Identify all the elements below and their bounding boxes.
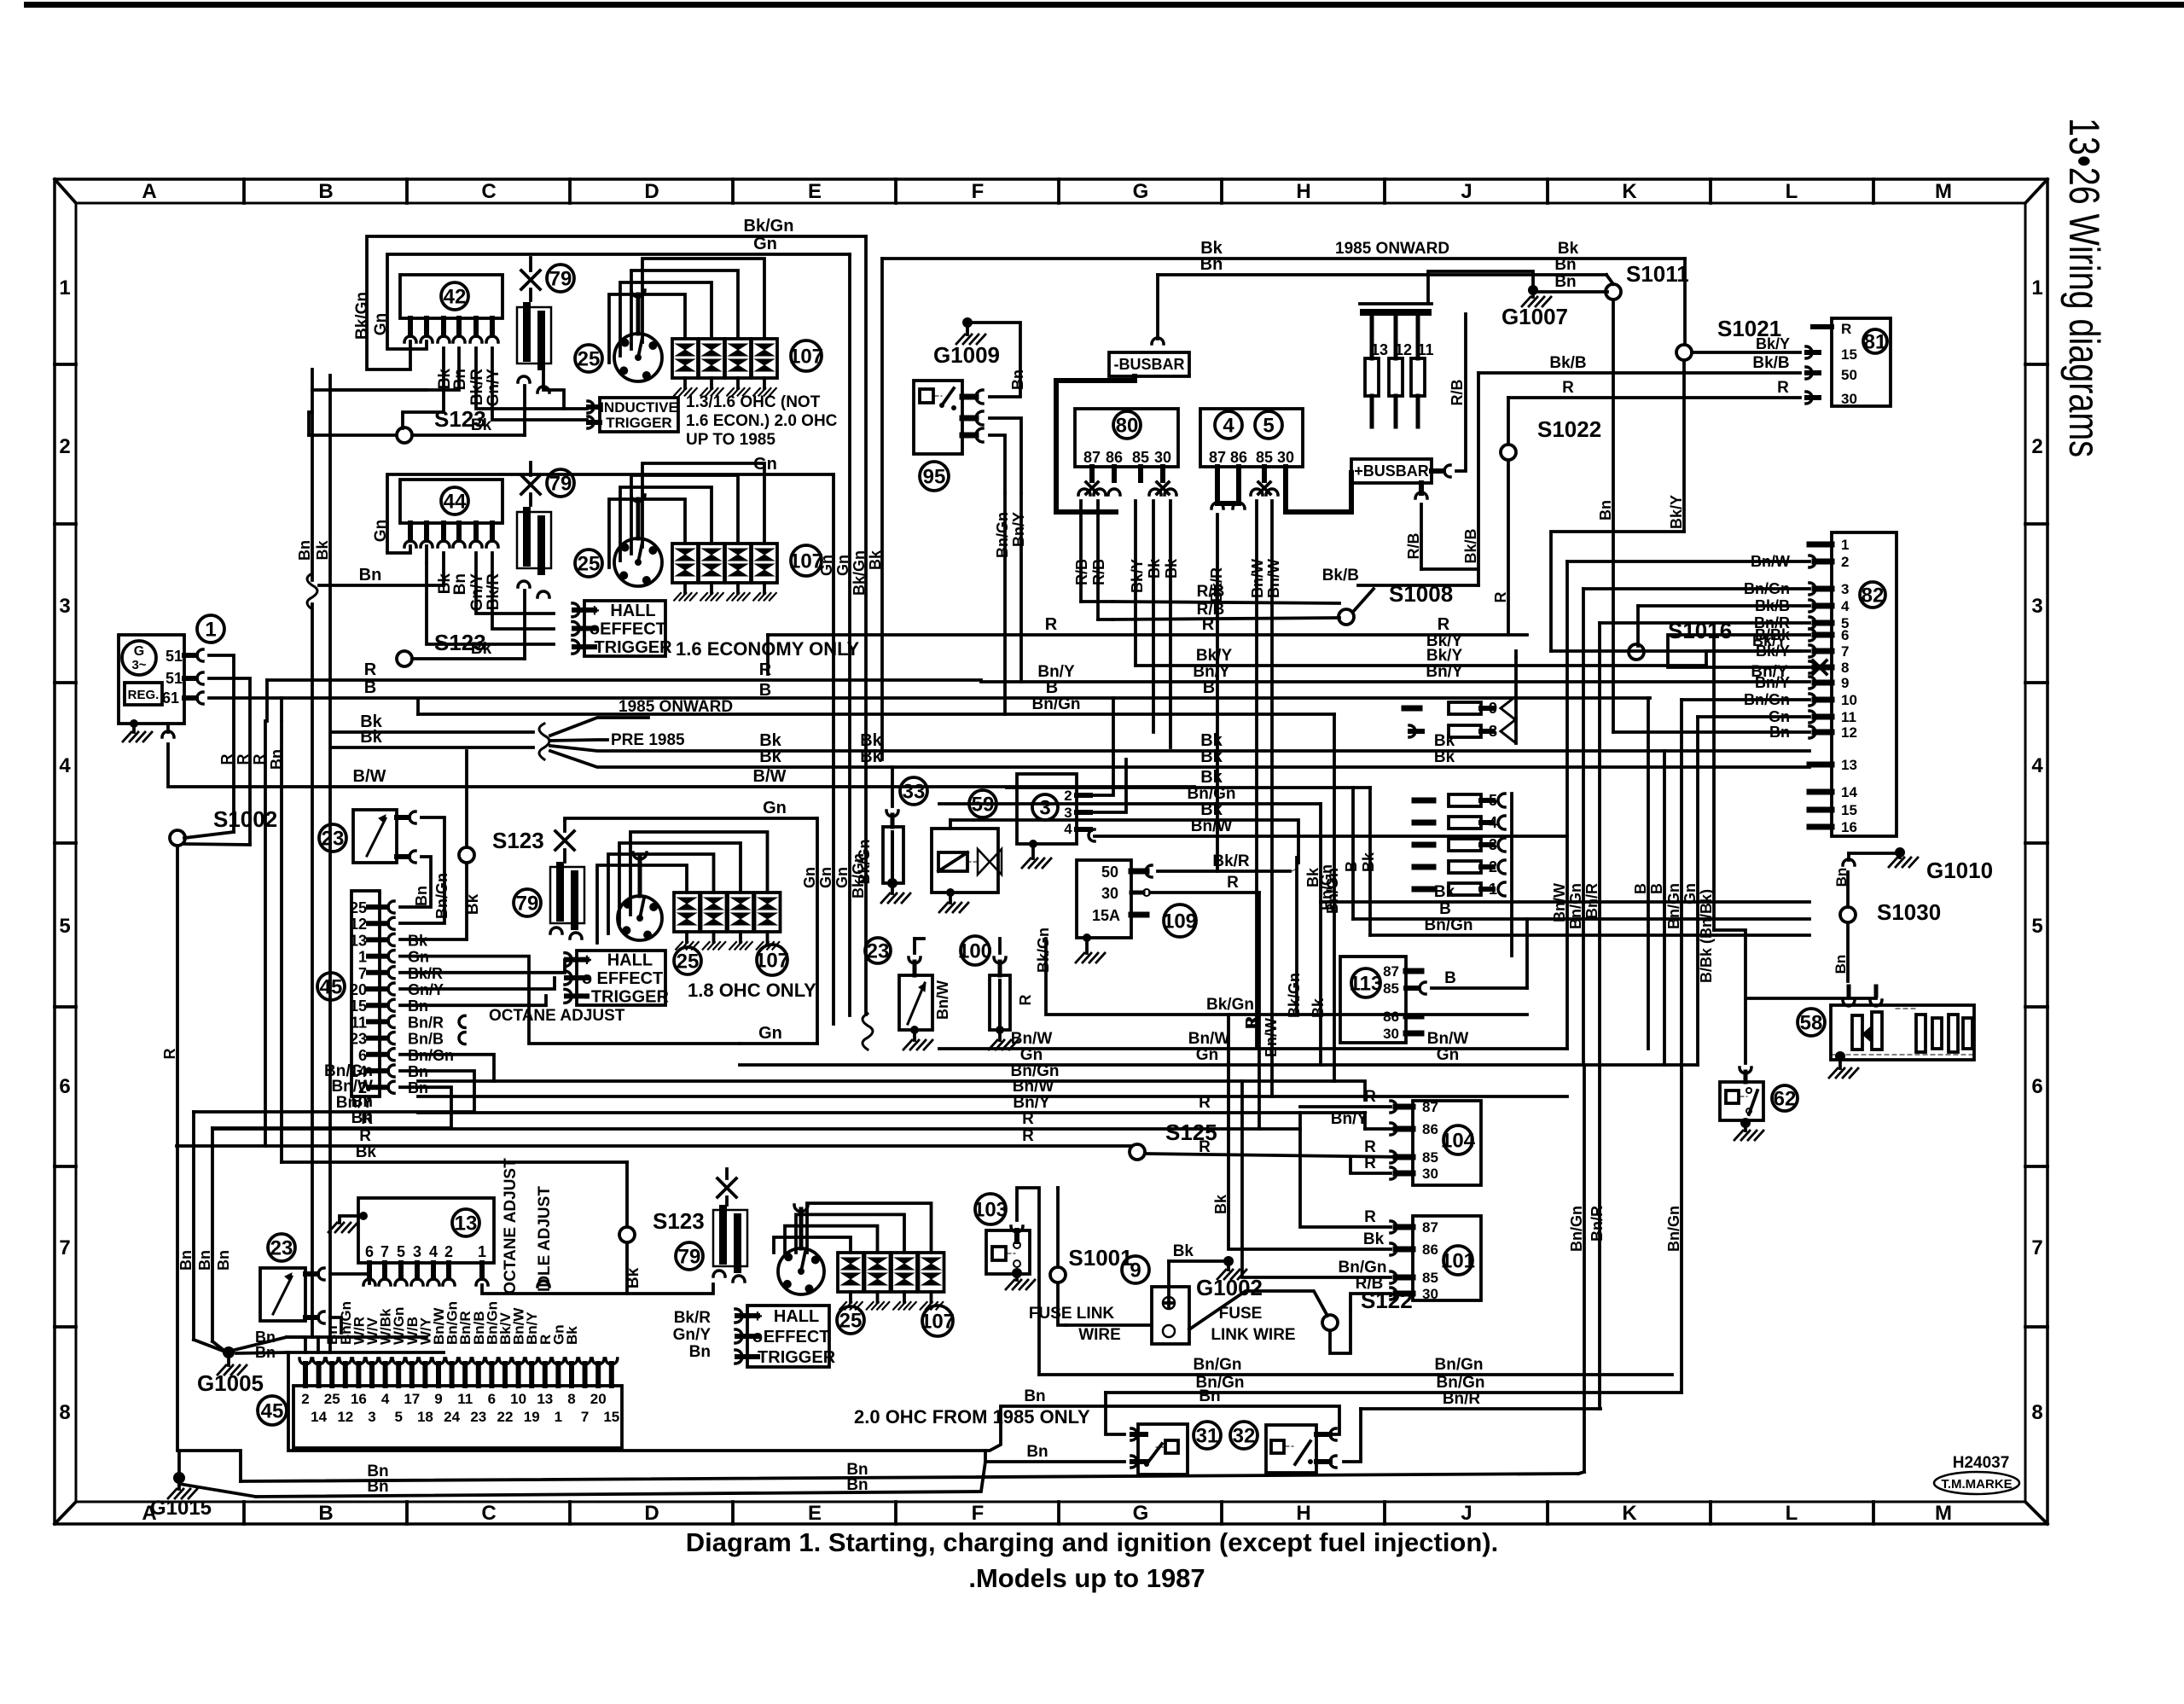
splice S123 (3) <box>459 847 474 863</box>
svg-text:25: 25 <box>350 899 367 916</box>
svg-text:1.8 OHC ONLY: 1.8 OHC ONLY <box>688 980 816 1001</box>
svg-text:Bn: Bn <box>367 1478 388 1496</box>
svg-text:R/B: R/B <box>1197 583 1225 601</box>
svg-text:R/B: R/B <box>1449 380 1466 406</box>
svg-text:Bn/W: Bn/W <box>1188 1030 1230 1048</box>
svg-text:Gn: Gn <box>817 867 834 888</box>
wire Bk S123 to coil <box>412 433 525 437</box>
circle ref 31 <box>1194 1422 1221 1449</box>
splice S123 (4) <box>619 1227 635 1242</box>
svg-text:86: 86 <box>1230 449 1247 466</box>
wire Bn into module44 <box>319 584 444 587</box>
splice S1008 <box>1339 609 1354 625</box>
svg-text:2: 2 <box>1841 554 1849 570</box>
hall trigger box (1.8 OHC) <box>577 951 665 1005</box>
wires pins 9-12 <box>1682 698 1809 701</box>
vertical Bn/W (J) <box>1565 561 1569 1049</box>
svg-text:11: 11 <box>457 1391 473 1407</box>
circle ref 79 <box>547 265 574 292</box>
svg-text:86: 86 <box>1383 1009 1399 1025</box>
svg-text:12: 12 <box>1841 724 1857 741</box>
pin8 splice X <box>1813 660 1827 674</box>
svg-text:1.3/1.6 OHC (NOT: 1.3/1.6 OHC (NOT <box>686 393 821 411</box>
svg-text:Bn/B: Bn/B <box>408 1031 444 1048</box>
svg-text:R: R <box>364 660 377 679</box>
ground G1007 <box>1528 285 1538 295</box>
svg-text:Gn: Gn <box>1682 883 1699 904</box>
svg-text:FUSE: FUSE <box>1219 1305 1263 1323</box>
octane adjust fork (45) <box>459 1015 465 1027</box>
wire Bn/W (row6b) <box>418 1095 1272 1098</box>
svg-text:6: 6 <box>1841 627 1849 643</box>
hall trigger box (2.0 OHC) <box>747 1306 829 1367</box>
svg-text:86: 86 <box>1106 449 1123 466</box>
wire pin14 Bn <box>400 1071 474 1112</box>
fuse link wire S1001 <box>1066 1323 1152 1327</box>
svg-text:Bk: Bk <box>759 747 781 766</box>
svg-text:R: R <box>235 754 252 765</box>
wire loop pin8 <box>1668 635 1814 667</box>
wire S123 left <box>309 433 397 437</box>
box82 ground G1010 <box>1847 853 1850 860</box>
svg-text:Bk/Y: Bk/Y <box>1196 647 1233 665</box>
svg-text:12: 12 <box>337 1409 353 1425</box>
svg-text:S1011: S1011 <box>1626 261 1689 287</box>
svg-text:Bn: Bn <box>451 573 469 595</box>
fuse block feed from G1007 riser <box>1428 271 1533 304</box>
svg-text:Bn/Y: Bn/Y <box>1013 1094 1050 1112</box>
svg-text:3: 3 <box>1064 805 1072 821</box>
wire to 33 from Bk bus <box>891 767 894 806</box>
svg-text:C: C <box>481 1502 496 1525</box>
E column risers Gn Gn Gn Bk/Gn <box>816 818 819 1044</box>
splice S1001 <box>1050 1267 1066 1282</box>
fuse block 13/12/11 <box>1360 309 1432 316</box>
wire Bk/Y via S1016 <box>1551 649 1809 653</box>
svg-text:R: R <box>1199 1138 1211 1156</box>
wire Bn/Gn bottom2 <box>1106 1391 1682 1394</box>
column ticks bottom <box>242 1502 246 1524</box>
svg-text:Bk: Bk <box>471 416 492 434</box>
relay4/5 30 to +BUSBAR (thick) <box>1286 473 1351 512</box>
wires R/B to S1008 <box>1112 602 1339 603</box>
svg-text:Bk: Bk <box>860 747 882 766</box>
wire Bn/Gn to 101-85 <box>1242 1081 1391 1277</box>
fuse 5 <box>1414 798 1433 804</box>
svg-text:R: R <box>161 1049 178 1060</box>
svg-text:30: 30 <box>1422 1286 1438 1302</box>
wire Bn bottom3 <box>288 1352 1339 1451</box>
svg-text:13: 13 <box>455 1213 478 1236</box>
svg-text:Bn/Gn: Bn/Gn <box>1437 1374 1485 1392</box>
circle ref 9 <box>1122 1256 1149 1283</box>
svg-text:J: J <box>1461 180 1472 203</box>
svg-text:80: 80 <box>1116 415 1139 438</box>
wire R (row7) through S125 <box>177 1144 1130 1148</box>
HT harness (1.8 OHC) <box>597 865 687 943</box>
svg-text:107: 107 <box>755 950 789 973</box>
svg-text:85: 85 <box>1383 980 1399 997</box>
circle ref 79 (4) <box>676 1242 703 1270</box>
wire Bk row5b <box>973 818 1297 822</box>
svg-text:Bn/Gn: Bn/Gn <box>1665 883 1682 929</box>
svg-text:51: 51 <box>166 670 183 687</box>
box3 ground <box>1029 840 1037 848</box>
svg-text:15: 15 <box>1841 802 1857 818</box>
wire Bn G1007 to S1011 <box>1539 290 1607 294</box>
svg-text:13: 13 <box>350 932 367 949</box>
svg-text:H: H <box>1296 1502 1310 1525</box>
svg-text:Bk: Bk <box>1200 768 1223 787</box>
svg-text:25: 25 <box>677 951 700 974</box>
wire R from 109-30 <box>1150 891 1259 894</box>
distributor (2.0 OHC) <box>778 1248 824 1294</box>
svg-text:Bn/Gn: Bn/Gn <box>1435 1356 1484 1374</box>
G-column risers Bk Bn/Gn B Bk <box>1319 804 1322 902</box>
svg-text:R: R <box>1202 615 1215 634</box>
wire S123-4 down <box>627 1242 713 1294</box>
svg-text:6: 6 <box>2031 1075 2042 1098</box>
svg-text:Gn: Gn <box>1437 1046 1459 1064</box>
wire pin1 Gn down to Gn bus <box>400 957 740 1044</box>
vertical R from S1002 down <box>176 846 179 1451</box>
circle ref 79 <box>547 469 574 497</box>
svg-text:Bn: Bn <box>177 1250 195 1271</box>
svg-text:HALL: HALL <box>774 1307 819 1326</box>
svg-text:81: 81 <box>1864 331 1887 354</box>
svg-text:Gn: Gn <box>372 313 390 335</box>
svg-text:Bn/R: Bn/R <box>408 1014 444 1031</box>
svg-text:FUSE LINK: FUSE LINK <box>1029 1305 1115 1323</box>
svg-text:Bk: Bk <box>1304 867 1321 887</box>
svg-text:3: 3 <box>2031 595 2042 618</box>
HT lead harness <box>609 294 685 363</box>
svg-text:2.0 OHC FROM 1985 ONLY: 2.0 OHC FROM 1985 ONLY <box>854 1406 1090 1428</box>
svg-text:50: 50 <box>1101 864 1118 881</box>
coil3 top splice X <box>555 831 574 850</box>
long wire Bk (row4b) <box>331 746 533 749</box>
svg-text:18: 18 <box>417 1409 433 1425</box>
svg-text:3: 3 <box>1039 797 1050 820</box>
svg-text:Bn/W: Bn/W <box>1011 1030 1053 1048</box>
wire Bn top to S1011 <box>1158 273 1606 276</box>
svg-text:Bn: Bn <box>351 1093 373 1111</box>
svg-text:K: K <box>1622 180 1637 203</box>
splice S122 <box>1322 1315 1338 1330</box>
svg-text:50: 50 <box>1841 367 1857 383</box>
wire Bk/R from 109-50 <box>1158 869 1290 873</box>
svg-text:12: 12 <box>350 916 367 933</box>
svg-text:14: 14 <box>1841 784 1857 800</box>
svg-text:87: 87 <box>1383 963 1399 980</box>
wire Bk/Gn (top left) <box>367 236 866 369</box>
splice S125 <box>1130 1144 1145 1160</box>
svg-text:5: 5 <box>1263 415 1274 438</box>
svg-text:Bk/Y: Bk/Y <box>1756 643 1790 660</box>
circle ref 79 (3) <box>514 889 541 916</box>
squiggle on Gn wire at E6 <box>863 1014 873 1050</box>
svg-text:30: 30 <box>1841 391 1857 407</box>
svg-text:79: 79 <box>516 893 539 916</box>
svg-text:20: 20 <box>590 1391 607 1407</box>
circle ref 25 <box>575 550 602 577</box>
wire Bn/Gn (row6) <box>418 1079 1334 1083</box>
fuse 9 <box>1404 706 1420 712</box>
svg-text:E: E <box>808 1502 822 1525</box>
relay 62 <box>1720 1082 1763 1120</box>
vertical B (K) 2 <box>1663 751 1666 1065</box>
svg-text:7: 7 <box>581 1409 589 1425</box>
svg-text:Gn: Gn <box>758 1024 782 1043</box>
+BUSBAR output <box>1432 468 1443 474</box>
ground G1009 <box>962 317 973 328</box>
svg-text:Bk/Gn: Bk/Gn <box>744 217 794 236</box>
long wire Bk/Y <box>1136 664 1706 667</box>
svg-text:13: 13 <box>1841 757 1857 773</box>
svg-text:Bk/Gn: Bk/Gn <box>850 853 867 899</box>
svg-text:Bk: Bk <box>1434 883 1455 901</box>
svg-text:Bn/W: Bn/W <box>1551 883 1568 922</box>
relay80 pins down <box>1089 467 1095 480</box>
svg-text:9: 9 <box>1841 675 1849 691</box>
svg-text:Gn: Gn <box>372 520 390 542</box>
fuse 8 <box>1409 725 1415 737</box>
svg-text:H: H <box>1296 180 1310 203</box>
svg-text:15: 15 <box>1841 346 1857 363</box>
svg-text:87: 87 <box>1083 449 1101 466</box>
regulator box <box>125 683 162 705</box>
svg-text:23: 23 <box>270 1237 293 1260</box>
long wire Bk 1985 onward <box>882 257 1685 260</box>
relay95 contact symbol <box>920 389 933 403</box>
wires relay95 pins down <box>990 418 1021 493</box>
svg-text:1.6 ECON.) 2.0 OHC: 1.6 ECON.) 2.0 OHC <box>686 412 838 430</box>
spark plugs (2.0 OHC) <box>838 1253 863 1292</box>
svg-text:30: 30 <box>1383 1026 1399 1042</box>
svg-text:Bn: Bn <box>296 540 313 561</box>
svg-text:R: R <box>1562 379 1574 397</box>
svg-text:4: 4 <box>1223 415 1234 438</box>
vertical Bk/B down <box>1477 373 1480 585</box>
svg-text:101: 101 <box>1441 1250 1475 1273</box>
circle ref 107 (3) <box>757 945 787 975</box>
long wire Bn/Gn (row4) <box>418 712 1334 716</box>
relay 59 (ignition?) <box>969 790 996 817</box>
svg-text:16: 16 <box>1841 819 1857 835</box>
svg-text:Gn: Gn <box>1196 1046 1218 1064</box>
svg-text:23: 23 <box>867 940 890 963</box>
svg-text:Bn/Y: Bn/Y <box>1426 663 1463 681</box>
svg-text:17: 17 <box>404 1391 420 1407</box>
wire R alternator pin51a <box>209 655 234 832</box>
ground G1015 <box>173 1472 185 1484</box>
svg-text:4: 4 <box>2031 754 2043 777</box>
svg-text:Bn/Gn: Bn/Gn <box>1425 916 1473 934</box>
svg-text:OCTANE ADJUST: OCTANE ADJUST <box>489 1007 625 1025</box>
svg-text:Bn: Bn <box>1024 1387 1045 1405</box>
svg-text:87: 87 <box>1422 1099 1438 1115</box>
spark plugs (1.8 OHC) <box>674 893 700 932</box>
svg-text:11: 11 <box>351 1014 367 1031</box>
wire Gn (cluster2 top) <box>387 474 834 553</box>
starter 81 pin stubs <box>1813 324 1832 329</box>
circle ref 95 <box>920 462 949 491</box>
alternator bottom hook <box>166 724 170 732</box>
vertical Bk/Y from top (S1021) <box>1683 259 1687 345</box>
svg-text:62: 62 <box>1774 1088 1797 1111</box>
svg-text:INDUCTIVE: INDUCTIVE <box>600 399 678 416</box>
wire Bk row5 <box>1007 786 1370 789</box>
svg-text:Gn: Gn <box>753 455 777 474</box>
svg-text:Bn/W: Bn/W <box>1265 559 1282 598</box>
wire Bk/B to S1008 leg <box>1358 584 1478 587</box>
svg-text:30: 30 <box>1154 449 1171 466</box>
row ticks right <box>2025 363 2047 366</box>
svg-text:104: 104 <box>1441 1130 1476 1153</box>
svg-text:Bn/Gn: Bn/Gn <box>1568 1206 1585 1252</box>
svg-text:R: R <box>1227 874 1239 892</box>
svg-text:Gn: Gn <box>1020 1046 1043 1064</box>
coolant sensor 23 (1) <box>319 824 346 852</box>
riser R from fuse100 <box>998 939 1002 953</box>
svg-text:Bk/R: Bk/R <box>674 1309 712 1327</box>
svg-text:Bn/W: Bn/W <box>1263 1018 1280 1057</box>
ignition module 44 box <box>400 480 502 523</box>
ignition module 13 <box>358 1198 494 1263</box>
verticals at bottom right <box>1583 1065 1586 1472</box>
coil 79 (2.0 OHC) <box>713 1210 747 1266</box>
splice S1022 <box>1501 445 1516 460</box>
wire Bk/B to starter 50 <box>1478 371 1800 375</box>
svg-text:Bn: Bn <box>351 1109 373 1127</box>
vertical Gn (K) <box>1696 717 1699 1065</box>
wire Gn (row6) <box>740 1063 1698 1067</box>
svg-text:30: 30 <box>1422 1166 1438 1182</box>
circle ref 107 (4) <box>922 1306 953 1336</box>
wire B K5 <box>1353 917 1809 921</box>
wire Bn/Gn K5 <box>1370 933 1809 937</box>
svg-text:G1015: G1015 <box>150 1497 212 1520</box>
svg-text:TRIGGER: TRIGGER <box>758 1348 836 1367</box>
svg-text:EFFECT: EFFECT <box>600 620 666 639</box>
svg-text:Bk: Bk <box>564 1326 580 1345</box>
svg-text:S1008: S1008 <box>1389 581 1453 607</box>
wire Gn (top left) <box>387 254 850 349</box>
wire B from 113-85 <box>1432 986 1527 990</box>
svg-text:109: 109 <box>1163 910 1197 933</box>
svg-text:Gn: Gn <box>801 867 818 888</box>
svg-text:Bn: Bn <box>1597 500 1614 521</box>
long wire R (row3) <box>207 677 211 680</box>
svg-text:Bk: Bk <box>1434 732 1455 750</box>
svg-text:G1007: G1007 <box>1501 304 1568 329</box>
svg-text:Bk/B: Bk/B <box>1752 354 1789 372</box>
vertical Bn/Gn (K) <box>1680 700 1683 1065</box>
svg-text:S123: S123 <box>492 828 544 853</box>
svg-text:5: 5 <box>397 1243 405 1260</box>
coil 79 (1.8 OHC) <box>550 867 584 923</box>
fusible link 33 <box>900 777 927 805</box>
wire 23b top to Bn/W <box>913 939 916 953</box>
svg-text:95: 95 <box>923 466 946 489</box>
svg-text:G: G <box>134 644 144 659</box>
svg-text:2: 2 <box>444 1243 453 1260</box>
58 top hooks <box>1843 1000 1855 1006</box>
wire R (row6d) <box>213 1127 1300 1131</box>
svg-text:R: R <box>359 1127 371 1145</box>
svg-text:B/Bk (Bn/Bk): B/Bk (Bn/Bk) <box>1698 889 1715 983</box>
circle ref 32 <box>1230 1422 1258 1449</box>
svg-text:25: 25 <box>324 1391 340 1407</box>
svg-text:30: 30 <box>1101 885 1118 902</box>
splice S1016 <box>1629 644 1644 660</box>
relay 80 box <box>1075 409 1178 467</box>
svg-text:S122: S122 <box>1361 1288 1413 1313</box>
relay 4/5 box <box>1200 409 1303 467</box>
svg-text:16: 16 <box>351 1391 367 1407</box>
distributor (1.8 OHC) <box>618 896 662 940</box>
wire 103/battery to fuse link <box>1167 1261 1170 1297</box>
wire module44 pin Bk to S123 (2) <box>425 546 428 563</box>
relay 113 <box>1340 957 1406 1043</box>
svg-text:79: 79 <box>678 1246 701 1269</box>
svg-text:Bn: Bn <box>1009 369 1026 390</box>
svg-text:C: C <box>481 180 496 203</box>
svg-text:7: 7 <box>2031 1236 2042 1259</box>
svg-text:14: 14 <box>311 1409 327 1425</box>
coolant sensor 23 (2.0 OHC) <box>268 1234 295 1261</box>
relay80 pin wires down <box>1079 501 1083 602</box>
svg-text:1: 1 <box>2031 276 2042 300</box>
wire R/B to 101-30 <box>1350 1294 1391 1311</box>
svg-text:87: 87 <box>1422 1219 1438 1236</box>
svg-text:R: R <box>1017 995 1034 1006</box>
svg-text:Bk: Bk <box>1200 800 1223 819</box>
wires sensor23 to connector45 <box>400 817 444 923</box>
svg-text:S123: S123 <box>653 1208 705 1234</box>
svg-text:Bk: Bk <box>1363 1230 1385 1248</box>
svg-text:58: 58 <box>1800 1012 1823 1035</box>
alternator ground <box>130 719 138 728</box>
svg-text:4: 4 <box>381 1391 390 1407</box>
wire module42 pin6 Gn/Y to trigger <box>492 348 587 420</box>
svg-text:22: 22 <box>497 1409 514 1425</box>
inhibitor switch 103 <box>975 1194 1006 1224</box>
svg-text:R: R <box>1364 1088 1376 1106</box>
svg-text:Bk/B: Bk/B <box>1462 528 1479 563</box>
wire Bn G1009 to relay95 <box>973 323 1020 397</box>
svg-text:F: F <box>972 180 985 203</box>
svg-text:100: 100 <box>958 940 992 963</box>
svg-text:R: R <box>1364 1154 1376 1172</box>
wires sensor23b <box>330 1274 369 1283</box>
border frame inner <box>76 203 2025 1502</box>
svg-text:103: 103 <box>973 1199 1008 1222</box>
svg-text:B: B <box>318 1502 333 1525</box>
svg-text:2: 2 <box>59 435 70 458</box>
wire Bn/W row5 <box>1095 835 1567 838</box>
box 3 (ignition switch feed?) <box>1017 774 1077 844</box>
svg-text:M: M <box>1935 180 1952 203</box>
wires connector45 to hall trigger <box>400 960 565 973</box>
svg-text:45: 45 <box>261 1400 284 1423</box>
coil bottom hooks <box>518 376 530 382</box>
fuse 3 <box>1414 842 1433 848</box>
svg-text:Bk: Bk <box>1200 239 1223 258</box>
relay4/5 87-86 link <box>1217 480 1239 503</box>
svg-text:+BUSBAR: +BUSBAR <box>1354 462 1429 480</box>
svg-text:15: 15 <box>603 1409 619 1425</box>
